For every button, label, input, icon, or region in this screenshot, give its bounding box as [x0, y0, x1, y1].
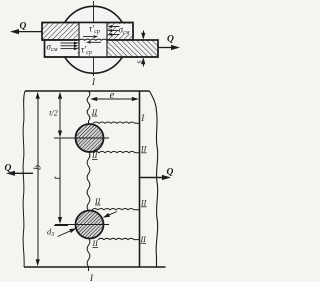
svg-text:II: II — [140, 145, 147, 154]
wavy section line below rivet2 — [87, 238, 90, 271]
shear arrow upper pointing right — [83, 36, 93, 38]
section label II below rivet1 — [91, 151, 98, 160]
bottom plate — [45, 40, 159, 57]
svg-text:b: b — [33, 165, 44, 170]
white box for sigma bearing label (bottom plate left) — [46, 41, 78, 56]
tick at rivet2 center — [54, 225, 68, 227]
section label II right rivet2 top — [140, 199, 147, 208]
svg-text:II: II — [92, 239, 99, 248]
b dimension line — [37, 98, 39, 260]
d3 leader arrow upper-right — [109, 212, 117, 215]
wavy section line between rivets — [87, 152, 90, 211]
s thickness dimension — [142, 31, 144, 36]
section label II above rivet1 — [91, 108, 98, 117]
shear plane wavy line — [79, 39, 107, 40]
top plate — [42, 23, 133, 41]
rivet 1 centerline — [55, 137, 109, 139]
svg-text:I: I — [140, 113, 145, 123]
section label II above rivet2 — [94, 197, 101, 206]
svg-text:II: II — [140, 199, 147, 208]
bearing arrows bottom-left pointing right — [61, 43, 75, 49]
wavy shear-out line rivet1 top — [93, 122, 140, 123]
force Q arrow top-left — [18, 31, 42, 33]
section label II below rivet2 — [92, 239, 99, 248]
svg-text:s: s — [134, 60, 144, 64]
rivet 2 — [76, 211, 104, 239]
svg-text:II: II — [91, 151, 98, 160]
svg-text:Q: Q — [5, 164, 12, 174]
svg-text:Q: Q — [20, 22, 27, 32]
centerline of rivet — [93, 1, 95, 76]
shear arrow lower pointing left — [91, 41, 101, 43]
svg-text:II: II — [140, 235, 147, 244]
svg-text:I: I — [91, 77, 96, 87]
svg-text:I: I — [89, 273, 94, 282]
force Q arrow right — [158, 47, 172, 49]
rivet shank — [42, 23, 158, 58]
force Q arrow bottom-left — [14, 172, 33, 174]
svg-text:t: t — [52, 176, 63, 179]
bearing arrows top-right pointing left — [112, 27, 120, 35]
t dimension line — [59, 138, 61, 218]
section label II right rivet2 bottom — [140, 235, 147, 244]
wavy section line above rivet1 — [87, 91, 90, 125]
rivet body circle — [60, 6, 127, 73]
plate bottom edge — [24, 266, 166, 268]
svg-text:t/2: t/2 — [49, 109, 57, 118]
t2 dimension line — [59, 98, 61, 131]
svg-text:e: e — [110, 90, 115, 101]
rivet 2 centerline — [55, 224, 109, 226]
rivet 1 — [76, 124, 104, 152]
left torn edge wavy — [23, 91, 25, 267]
svg-text:II: II — [94, 197, 101, 206]
svg-text:Q: Q — [167, 35, 174, 45]
svg-text:II: II — [91, 108, 98, 117]
white halo for sigma label top-right — [117, 24, 132, 34]
svg-text:Q: Q — [167, 168, 174, 178]
wavy shear-out line rivet1 bottom — [93, 151, 140, 152]
wavy shear-out line rivet2 bottom — [98, 238, 140, 239]
section label II right rivet1 bottom — [140, 145, 147, 154]
e dimension line — [96, 98, 133, 100]
d3 leader arrow lower-left — [58, 231, 71, 236]
right plate edge — [139, 91, 141, 267]
tick at rivet1 center — [54, 137, 68, 139]
wavy shear-out line rivet2 top — [92, 209, 140, 210]
force Q arrow bottom-right — [140, 177, 164, 179]
lower plate torn edge wavy — [150, 91, 158, 267]
svg-text:d3: d3 — [47, 227, 54, 239]
plate top edge — [25, 90, 150, 92]
